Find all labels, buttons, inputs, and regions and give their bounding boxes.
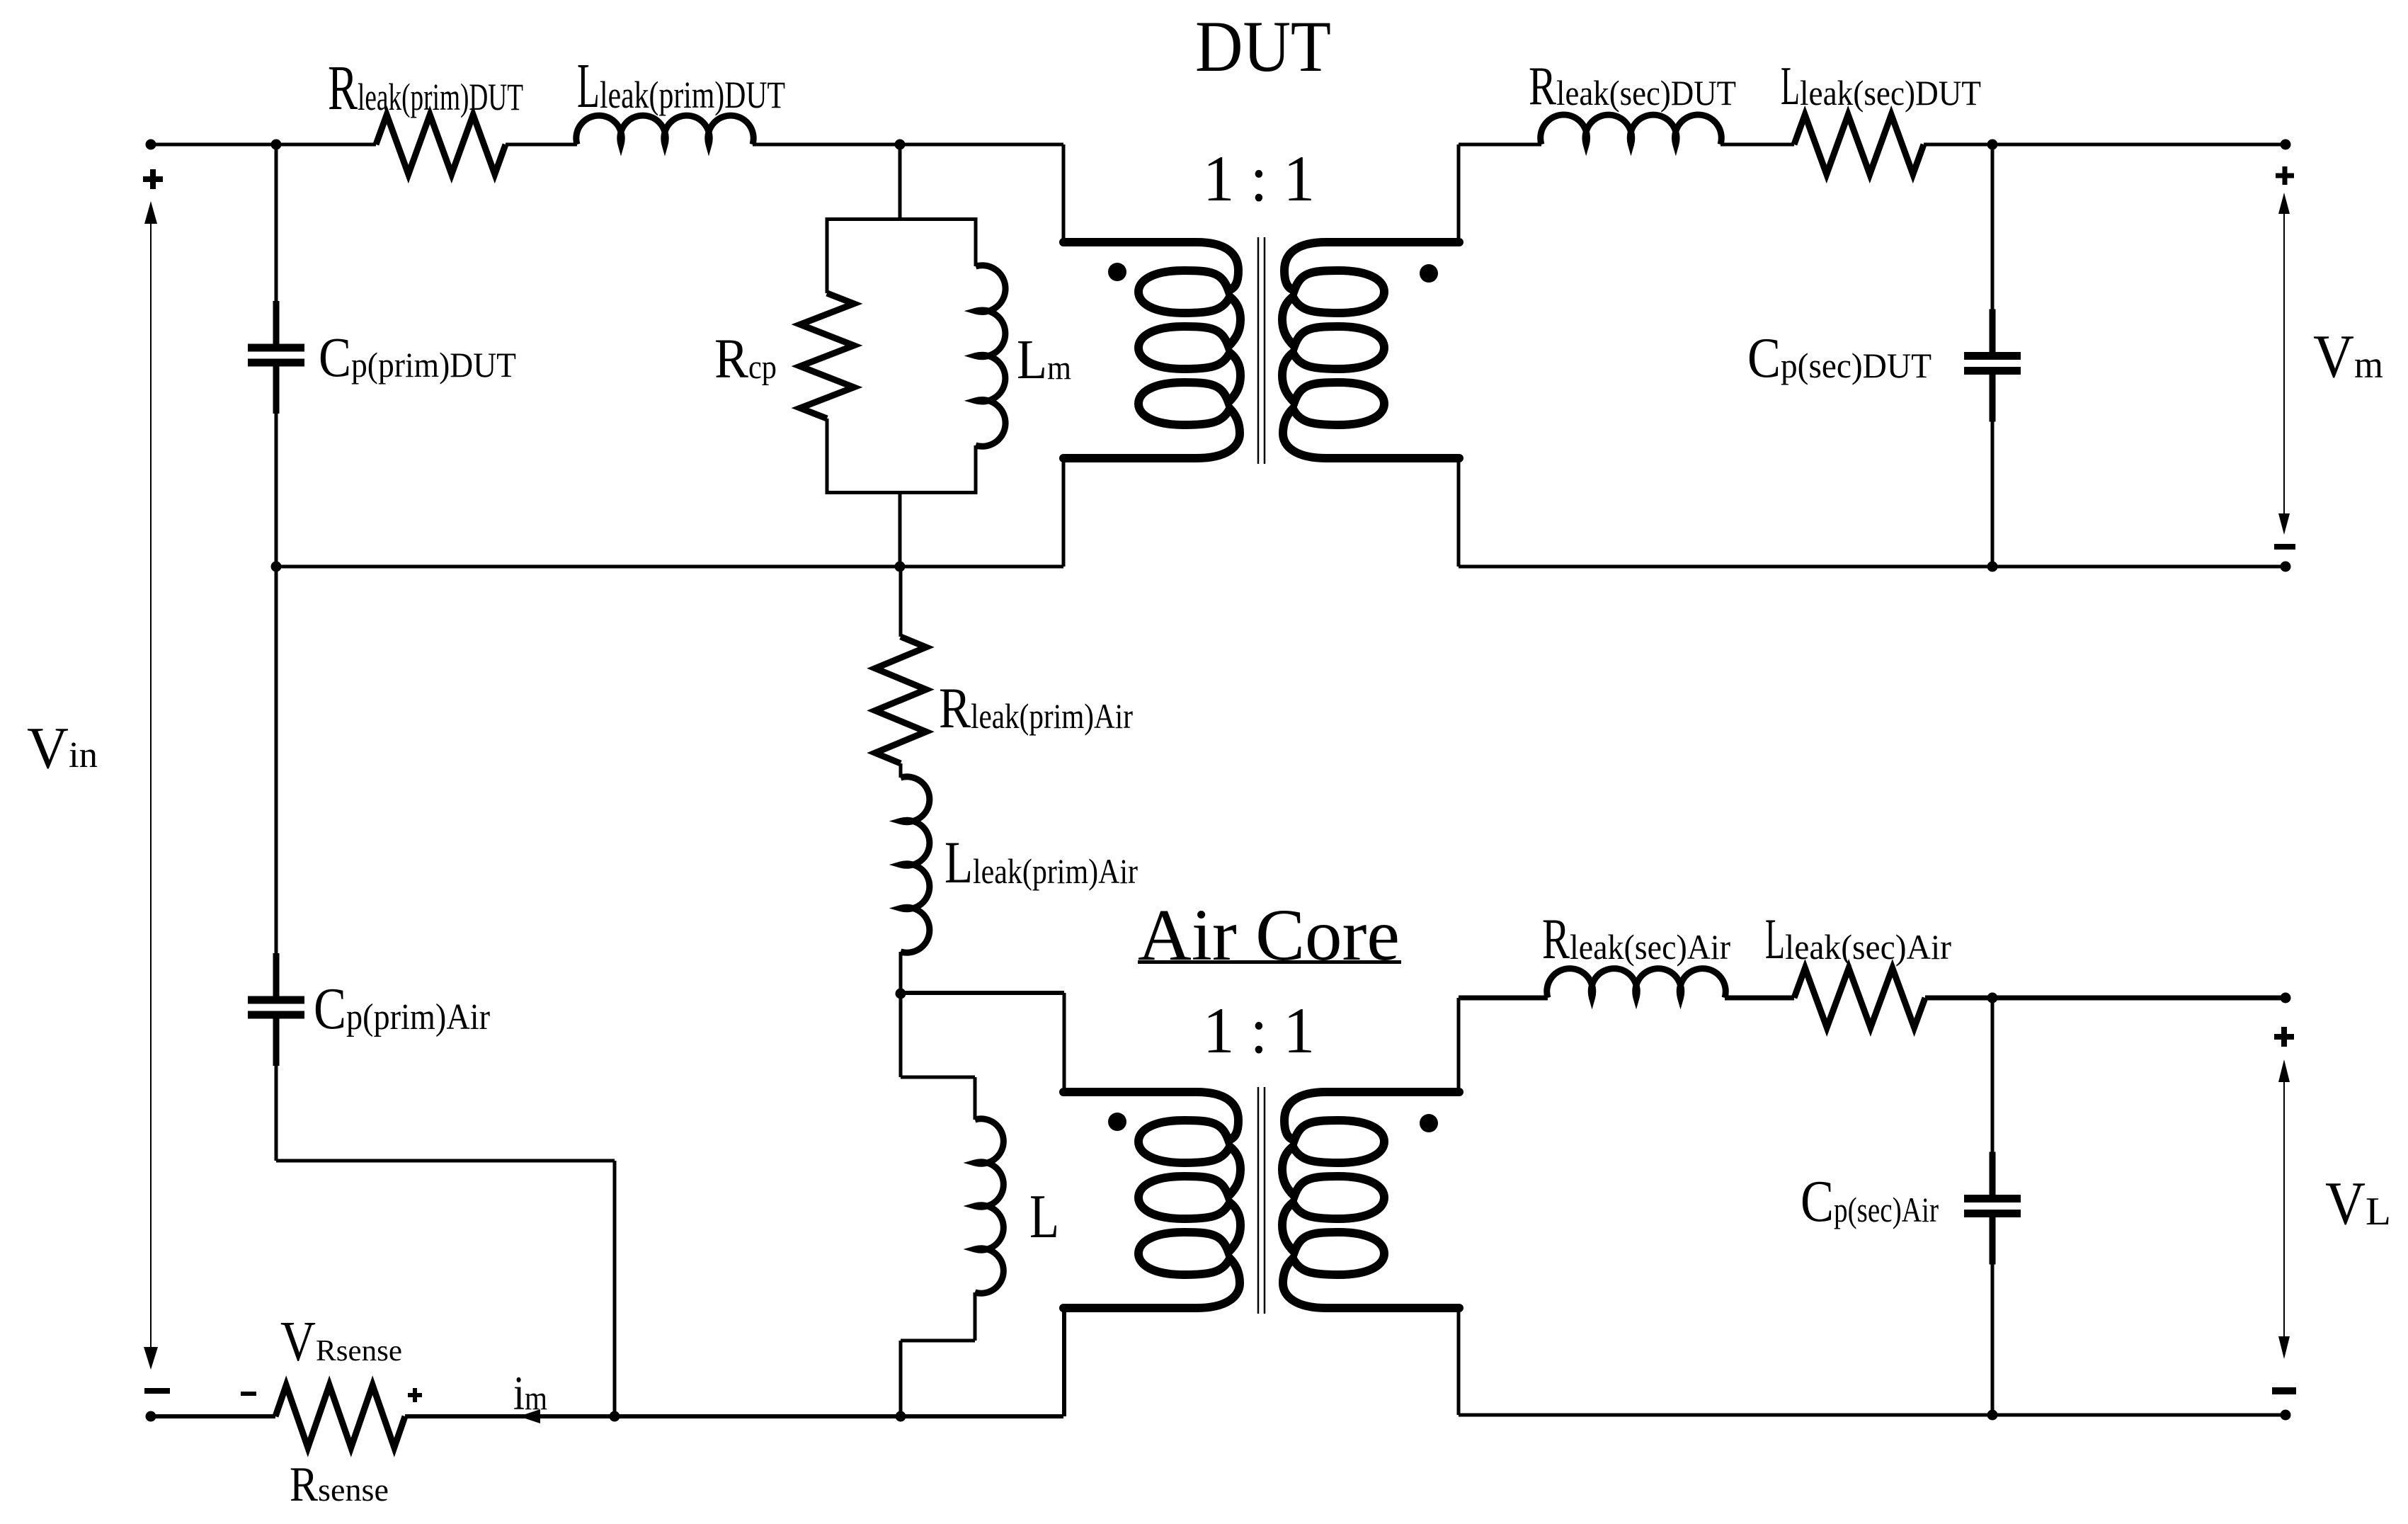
transformer T1 primary winding — [1063, 242, 1240, 458]
svg-text:L: L — [1029, 1183, 1059, 1251]
inductor symbol Rleak(sec)DUT — [1541, 115, 1722, 144]
label Vm plus — [2276, 174, 2294, 178]
phase dot T2 primary — [1108, 1113, 1126, 1131]
wire — [899, 1341, 903, 1416]
wire — [1457, 457, 1461, 567]
svg-text:leak(sec)DUT: leak(sec)DUT — [1800, 73, 1981, 113]
node Vin- terminal — [146, 1411, 156, 1422]
arrow Vin up — [144, 201, 157, 224]
inductor Lleak(prim)DUT — [576, 115, 753, 144]
label Vin minus — [144, 1388, 170, 1394]
label VL plus — [2274, 1034, 2294, 1040]
node A junction — [271, 140, 282, 150]
svg-text:C: C — [1747, 326, 1781, 389]
wire — [276, 565, 1063, 569]
svg-text:L: L — [945, 829, 973, 896]
svg-text:in: in — [69, 735, 98, 775]
svg-text:leak(prim)DUT: leak(prim)DUT — [358, 76, 523, 118]
transformer T2 primary winding — [1063, 1092, 1240, 1308]
svg-text:leak(prim)DUT: leak(prim)DUT — [600, 74, 785, 116]
node Vin+ terminal — [146, 140, 156, 150]
node C junction — [895, 562, 906, 572]
transformer T2 core — [1257, 1087, 1260, 1314]
resistor Rsense — [275, 1385, 405, 1448]
phase dot T2 secondary — [1420, 1114, 1438, 1132]
node K junction — [1987, 1410, 1998, 1421]
arrow VL up — [2278, 1059, 2290, 1082]
resistor Rcp — [800, 293, 854, 419]
wire — [1457, 998, 1461, 1093]
svg-text:m: m — [2354, 343, 2383, 386]
transformer T2 secondary winding — [1282, 1092, 1459, 1308]
wire Vin arrow line — [150, 212, 152, 1356]
node I junction — [610, 1411, 620, 1422]
wire — [1925, 996, 2286, 1001]
wire — [898, 493, 902, 567]
wire box right lower — [974, 445, 978, 494]
wire — [613, 1161, 617, 1416]
wire — [1459, 1414, 2286, 1417]
svg-text:DUT: DUT — [1195, 6, 1331, 87]
wire — [276, 1159, 615, 1163]
phase dot T1 primary — [1108, 263, 1126, 281]
svg-text:C: C — [319, 327, 351, 389]
wire — [151, 1414, 275, 1418]
svg-text:leak(prim)Air: leak(prim)Air — [971, 696, 1133, 736]
inductor symbol Rleak(sec)Air — [1547, 969, 1726, 998]
svg-text:V: V — [2313, 322, 2354, 390]
label Vm minus — [2274, 544, 2295, 550]
svg-text:L: L — [1765, 906, 1785, 971]
svg-text:1 : 1: 1 : 1 — [1203, 142, 1315, 215]
wire — [151, 143, 376, 147]
arrow im — [519, 1409, 540, 1423]
capacitor Cp(sec)DUT — [1991, 144, 1995, 314]
node Vm+ terminal — [2281, 140, 2291, 150]
arrow Vm down — [2278, 513, 2290, 535]
svg-text:leak(sec)DUT: leak(sec)DUT — [1556, 73, 1736, 113]
node VL+ terminal — [2281, 993, 2291, 1003]
wire — [1459, 565, 2286, 569]
node G junction — [896, 989, 906, 999]
svg-text:C: C — [1801, 1168, 1834, 1234]
node H junction — [1987, 993, 1998, 1003]
wire Vm arrow line — [2283, 209, 2285, 521]
resistor symbol Lleak(sec)Air — [1794, 968, 1925, 1028]
wire box bottom — [827, 491, 976, 494]
svg-text:Rsense: Rsense — [316, 1335, 402, 1367]
node B junction — [895, 140, 906, 150]
svg-text:leak(sec)Air: leak(sec)Air — [1785, 927, 1951, 967]
capacitor Cp(sec)Air — [1991, 998, 1995, 1156]
svg-text:L: L — [577, 51, 600, 121]
wire box top — [827, 217, 976, 221]
arrow Vin down — [144, 1347, 158, 1370]
wire — [1924, 143, 2286, 147]
resistor Rleak(prim)Air — [875, 637, 926, 763]
svg-text:p(prim)DUT: p(prim)DUT — [351, 345, 516, 385]
svg-text:leak(prim)Air: leak(prim)Air — [973, 851, 1138, 891]
wire — [1459, 996, 1548, 1001]
svg-text:1 : 1: 1 : 1 — [1203, 994, 1315, 1067]
wire — [1457, 144, 1461, 244]
wire — [405, 1414, 1063, 1418]
wire — [1062, 457, 1066, 567]
wire — [1062, 1308, 1066, 1416]
wire — [899, 952, 903, 993]
node VL- terminal — [2281, 1410, 2291, 1421]
wire — [1457, 1308, 1461, 1415]
inductor L — [975, 1119, 1003, 1293]
svg-text:i: i — [513, 1366, 525, 1420]
wire — [1721, 143, 1794, 147]
node D junction — [1987, 140, 1998, 150]
svg-text:R: R — [1529, 55, 1556, 116]
wire — [898, 144, 902, 221]
wire — [1459, 143, 1541, 147]
wire — [901, 991, 1064, 995]
svg-text:R: R — [290, 1457, 318, 1512]
svg-text:V: V — [27, 715, 69, 781]
label Rsense plus — [408, 1393, 422, 1397]
wire — [974, 1077, 977, 1120]
svg-text:L: L — [1017, 329, 1047, 391]
svg-text:m: m — [525, 1380, 547, 1417]
wire — [506, 143, 577, 147]
wire VL arrow line — [2283, 1076, 2285, 1342]
wire — [1063, 993, 1066, 1093]
node F junction — [1987, 562, 1998, 572]
svg-text:p(sec)Air: p(sec)Air — [1834, 1190, 1939, 1229]
node E junction — [271, 562, 282, 572]
svg-text:cp: cp — [748, 348, 777, 386]
svg-text:L: L — [2366, 1190, 2391, 1234]
resistor symbol Lleak(sec)DUT — [1794, 115, 1924, 174]
svg-text:R: R — [714, 329, 748, 390]
svg-text:sense: sense — [318, 1472, 389, 1508]
node J junction — [896, 1411, 906, 1422]
wire — [974, 1292, 977, 1341]
svg-text:R: R — [328, 53, 358, 123]
svg-text:L: L — [1781, 55, 1800, 116]
node Vm- terminal — [2281, 562, 2291, 572]
inductor Lleak(prim)Air — [901, 777, 930, 952]
svg-text:R: R — [1542, 906, 1570, 971]
phase dot T1 secondary — [1420, 264, 1438, 283]
svg-text:m: m — [1047, 349, 1071, 387]
svg-text:leak(sec)Air: leak(sec)Air — [1570, 927, 1730, 967]
svg-text:p(prim)Air: p(prim)Air — [346, 997, 490, 1037]
capacitor Cp(prim)DUT — [275, 144, 278, 305]
svg-text:C: C — [314, 976, 346, 1042]
wire — [1062, 144, 1066, 244]
wire box left lower — [826, 419, 829, 494]
resistor Rleak(prim)DUT — [376, 115, 506, 174]
label Vin plus — [143, 176, 163, 182]
arrow VL down — [2278, 1336, 2290, 1359]
wire — [753, 143, 1063, 147]
inductor Lm — [976, 266, 1005, 447]
wire box left upper — [826, 217, 829, 293]
label Rsense minus — [241, 1392, 256, 1396]
svg-text:V: V — [2325, 1168, 2366, 1237]
capacitor Cp(prim)Air — [275, 567, 278, 957]
transformer T1 core — [1257, 237, 1260, 464]
arrow Vm up — [2278, 193, 2290, 214]
label VL minus — [2272, 1387, 2296, 1394]
wire — [901, 1339, 975, 1343]
wire — [1725, 996, 1794, 1001]
wire — [901, 1076, 975, 1079]
svg-text:R: R — [939, 676, 971, 740]
transformer T1 secondary winding — [1282, 242, 1459, 458]
svg-text:V: V — [280, 1311, 316, 1373]
wire — [899, 567, 903, 637]
wire box right upper — [974, 217, 978, 266]
wire — [899, 993, 903, 1077]
svg-text:p(sec)DUT: p(sec)DUT — [1781, 346, 1931, 385]
wire — [899, 763, 903, 778]
